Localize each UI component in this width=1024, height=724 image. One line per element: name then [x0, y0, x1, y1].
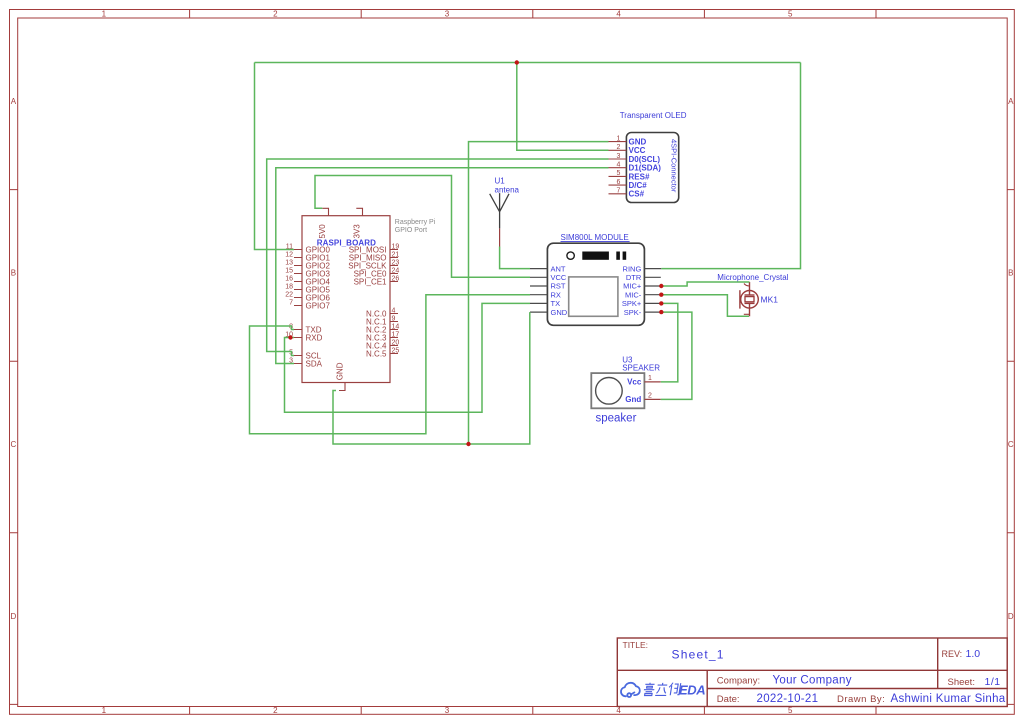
wire MIC- to MK1: [661, 295, 749, 317]
svg-text:2: 2: [273, 10, 278, 19]
svg-text:SIM800L MODULE: SIM800L MODULE: [561, 233, 629, 242]
junction top bus/VCC: [515, 60, 519, 64]
svg-text:2022-10-21: 2022-10-21: [757, 693, 819, 705]
svg-text:2: 2: [617, 144, 621, 151]
svg-text:Ashwini Kumar Sinha: Ashwini Kumar Sinha: [891, 693, 1006, 705]
svg-text:20: 20: [392, 339, 400, 346]
wire antenna to ANT: [500, 247, 530, 269]
svg-text:1: 1: [617, 135, 621, 142]
svg-text:1.0: 1.0: [966, 648, 981, 660]
svg-text:ANT: ANT: [551, 264, 566, 273]
svg-text:18: 18: [285, 283, 293, 290]
svg-text:SPK-: SPK-: [624, 308, 642, 317]
svg-text:VCC: VCC: [629, 146, 646, 155]
svg-text:14: 14: [392, 323, 400, 330]
svg-text:D1(SDA): D1(SDA): [629, 164, 662, 173]
svg-text:1: 1: [102, 10, 107, 19]
svg-text:B: B: [1008, 269, 1013, 278]
svg-text:16: 16: [285, 275, 293, 282]
svg-text:A: A: [1008, 97, 1014, 106]
svg-text:RST: RST: [551, 282, 566, 291]
svg-text:7: 7: [617, 188, 621, 195]
RASPI left pins with numbers: [294, 250, 302, 364]
JLCEDA logo (decorative): [621, 683, 681, 697]
svg-text:Vcc: Vcc: [627, 378, 642, 387]
wire TXD to SIM RX: [250, 295, 531, 434]
svg-text:3: 3: [445, 706, 450, 715]
junction SPK-: [659, 310, 663, 314]
svg-text:3V3: 3V3: [353, 224, 362, 239]
wire RXD to SIM TX: [285, 303, 531, 412]
svg-text:Date:: Date:: [717, 694, 740, 705]
wire to GPIO0: [255, 63, 295, 250]
svg-text:GPIO Port: GPIO Port: [395, 227, 427, 234]
svg-text:1: 1: [102, 706, 107, 715]
junction MIC+: [659, 284, 663, 288]
svg-text:Company:: Company:: [717, 676, 760, 687]
svg-text:5: 5: [788, 706, 793, 715]
svg-text:MIC+: MIC+: [623, 282, 642, 291]
svg-text:SPEAKER: SPEAKER: [622, 364, 660, 373]
svg-text:SPK+: SPK+: [622, 299, 642, 308]
antenna U1: [490, 177, 520, 247]
svg-text:1/1: 1/1: [985, 676, 1001, 688]
svg-text:GND: GND: [335, 362, 344, 380]
svg-text:17: 17: [392, 331, 400, 338]
svg-text:GND: GND: [551, 308, 568, 317]
wire 5V0 to SIM VCC: [315, 176, 530, 278]
svg-text:2: 2: [273, 706, 278, 715]
svg-text:21: 21: [392, 251, 400, 258]
svg-text:SPI_CE1: SPI_CE1: [354, 277, 387, 286]
svg-text:Your Company: Your Company: [773, 675, 852, 687]
svg-text:REV:: REV:: [942, 649, 963, 659]
svg-text:24: 24: [392, 267, 400, 274]
svg-text:CS#: CS#: [629, 190, 645, 199]
junction SPK+: [659, 301, 663, 305]
svg-text:3: 3: [445, 10, 450, 19]
svg-text:DTR: DTR: [626, 273, 642, 282]
svg-text:4: 4: [616, 10, 621, 19]
svg-text:D/C#: D/C#: [629, 181, 648, 190]
svg-text:D0(SCL): D0(SCL): [629, 155, 661, 164]
svg-text:VCC: VCC: [551, 273, 567, 282]
svg-text:19: 19: [392, 243, 400, 250]
svg-text:9: 9: [392, 315, 396, 322]
svg-text:MIC-: MIC-: [625, 290, 642, 299]
svg-text:A: A: [11, 97, 17, 106]
svg-text:TX: TX: [551, 299, 561, 308]
svg-text:D: D: [11, 612, 17, 621]
junction MIC-: [659, 293, 663, 297]
svg-text:Gnd: Gnd: [625, 395, 641, 404]
wire MIC+ to MK1: [661, 282, 749, 286]
svg-text:Raspberry Pi: Raspberry Pi: [395, 219, 436, 226]
junction RXD: [288, 335, 292, 339]
svg-text:GPIO7: GPIO7: [306, 301, 331, 310]
junction GND net: [466, 442, 470, 446]
speaker U3: [591, 356, 661, 425]
svg-text:23: 23: [392, 259, 400, 266]
pin GND (bottom): [335, 362, 345, 390]
svg-text:4: 4: [616, 706, 621, 715]
svg-text:4SPI-Connector: 4SPI-Connector: [670, 139, 679, 193]
wire top bus: [255, 62, 801, 64]
svg-text:U1: U1: [495, 177, 506, 186]
pin 3V3 (top): [353, 208, 363, 238]
svg-text:Microphone_Crystal: Microphone_Crystal: [717, 273, 788, 282]
svg-text:RING: RING: [623, 264, 642, 273]
wire SPK- to speaker Gnd: [661, 312, 692, 399]
svg-text:GND: GND: [629, 138, 647, 147]
wire D0(SCL) to SCL: [267, 159, 609, 356]
wire D1(SDA) to SDA: [276, 168, 609, 364]
svg-text:2: 2: [648, 392, 652, 399]
connector OLED 4SPI: [620, 111, 687, 202]
svg-text:3: 3: [617, 153, 621, 160]
svg-text:C: C: [1008, 440, 1014, 449]
svg-text:RXD: RXD: [306, 333, 323, 342]
svg-text:13: 13: [285, 259, 293, 266]
svg-text:Sheet_1: Sheet_1: [672, 648, 725, 662]
svg-text:EDA: EDA: [679, 683, 705, 698]
svg-text:22: 22: [285, 291, 293, 298]
SIM800L right pins: [644, 269, 661, 313]
svg-text:1: 1: [648, 375, 652, 382]
raspberry pi board U? RASPI_BOARD: [302, 216, 436, 383]
svg-text:12: 12: [285, 251, 293, 258]
wire GND net: [333, 312, 530, 444]
svg-text:Drawn By:: Drawn By:: [837, 694, 885, 705]
wire to OLED VCC: [517, 63, 609, 151]
svg-text:RES#: RES#: [629, 172, 650, 181]
wire to RING: [661, 63, 800, 269]
svg-text:5: 5: [617, 170, 621, 177]
microphone MK1 Microphone_Crystal: [717, 273, 788, 316]
svg-text:6: 6: [617, 179, 621, 186]
wire SPK+ to speaker Vcc: [661, 303, 678, 382]
svg-text:15: 15: [285, 267, 293, 274]
OLED pins 1-7: [609, 142, 627, 194]
SIM800L left pins: [530, 269, 547, 313]
svg-text:4: 4: [392, 307, 396, 314]
svg-text:5V0: 5V0: [318, 224, 327, 239]
svg-text:4: 4: [617, 162, 621, 169]
module U2 SIM800L: [547, 233, 644, 325]
svg-text:SDA: SDA: [306, 359, 323, 368]
wire OLED GND down: [469, 142, 609, 444]
TITLE BLOCK (decorative): [617, 638, 1007, 707]
svg-text:RX: RX: [551, 290, 561, 299]
svg-text:TITLE:: TITLE:: [623, 640, 649, 650]
svg-text:antena: antena: [495, 186, 520, 195]
svg-text:7: 7: [289, 299, 293, 306]
svg-text:N.C.5: N.C.5: [366, 349, 387, 358]
RASPI right pins with numbers: [390, 250, 398, 354]
svg-text:speaker: speaker: [596, 413, 637, 425]
svg-text:25: 25: [392, 347, 400, 354]
svg-text:C: C: [11, 440, 17, 449]
svg-text:26: 26: [392, 275, 400, 282]
svg-text:B: B: [11, 269, 16, 278]
svg-text:Sheet:: Sheet:: [948, 677, 975, 688]
svg-text:D: D: [1008, 612, 1014, 621]
pin 5V0 (top): [318, 208, 329, 238]
svg-text:MK1: MK1: [761, 295, 779, 305]
svg-text:5: 5: [788, 10, 793, 19]
svg-text:Transparent OLED: Transparent OLED: [620, 111, 687, 120]
